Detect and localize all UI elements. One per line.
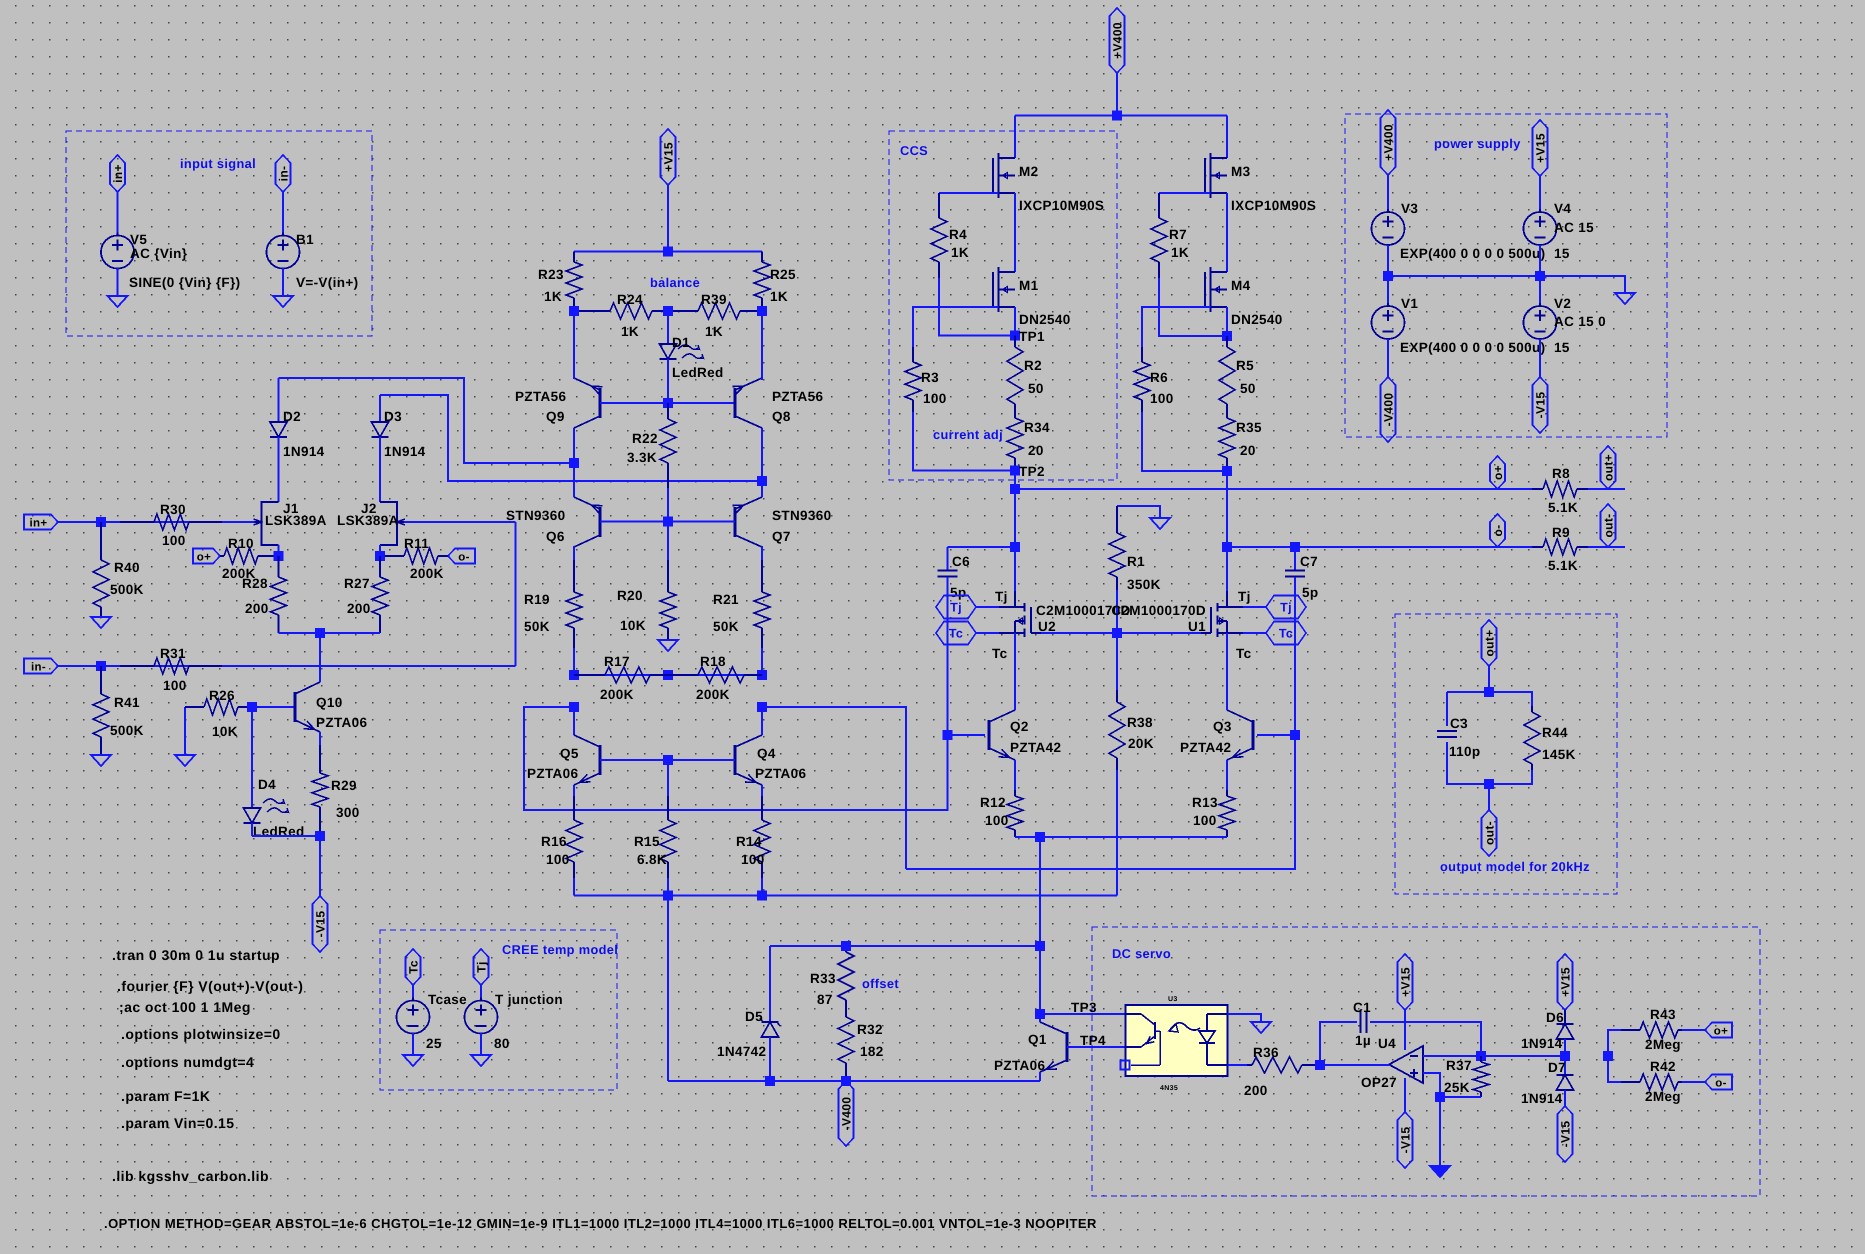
flag -V400 ps (1381, 377, 1396, 442)
ground B1 (273, 268, 293, 307)
ground opamp (1430, 1166, 1450, 1177)
svg-text:5p: 5p (1302, 585, 1318, 600)
resistor R23 (538, 252, 582, 312)
flag -V15 Q10 (313, 896, 328, 952)
svg-text:1K: 1K (1171, 245, 1189, 260)
svg-text:10K: 10K (620, 618, 646, 633)
resistor R15 (634, 760, 676, 896)
wire J1 gate (222, 521, 252, 523)
svg-text:-V15: -V15 (314, 911, 328, 938)
svg-text:STN9360: STN9360 (506, 508, 565, 523)
svg-text:R5: R5 (1236, 358, 1254, 373)
junction R35b (1222, 466, 1232, 476)
resistor R32 (838, 1014, 884, 1081)
svg-text:R38: R38 (1127, 715, 1153, 730)
comment box: CCS (889, 131, 1117, 480)
wire M2 drain (1014, 116, 1016, 159)
svg-text:100: 100 (985, 813, 1009, 828)
svg-text:R16: R16 (541, 834, 567, 849)
svg-text:4N35: 4N35 (1160, 1085, 1178, 1092)
transistor Q7 STN9360 (733, 497, 832, 547)
wire opamp plus (1423, 1073, 1440, 1097)
svg-text:Tc: Tc (949, 627, 963, 641)
diode D3 (372, 395, 426, 502)
svg-text:out-: out- (1483, 821, 1497, 845)
voltage source V2 (1524, 276, 1606, 355)
svg-text:-V15: -V15 (1534, 392, 1548, 419)
directive .fourier (117, 978, 303, 994)
svg-text:20: 20 (1028, 443, 1044, 458)
svg-text:1K: 1K (544, 289, 562, 304)
wire Q5 loop (524, 707, 948, 810)
wire opamp vm (0, 0, 1, 1)
svg-text:C6: C6 (952, 554, 970, 569)
svg-text:200: 200 (347, 601, 371, 616)
svg-text:D1: D1 (672, 335, 690, 350)
transistor Q2 PZTA42 (989, 710, 1061, 760)
junction r17r (663, 670, 673, 680)
resistor R2 (1007, 336, 1044, 413)
svg-text:+V400: +V400 (1382, 124, 1396, 161)
svg-text:R40: R40 (114, 560, 140, 575)
svg-text:U2: U2 (1038, 619, 1056, 634)
svg-text:output model for 20kHz: output model for 20kHz (1440, 859, 1590, 874)
svg-text:D3: D3 (384, 409, 402, 424)
resistor R39 (668, 292, 762, 339)
junction M4s (1222, 331, 1232, 341)
flag +V400 ps (1381, 110, 1396, 175)
mosfet M4 (1205, 267, 1283, 327)
junction Q2 base (943, 730, 953, 740)
wire v2 bot (1539, 339, 1541, 377)
junction r17l (569, 670, 579, 680)
wire o- rail (1227, 546, 1532, 548)
wire D3 top loop (380, 395, 762, 481)
wire r43 branch (1608, 1030, 1621, 1056)
svg-text:100: 100 (546, 852, 570, 867)
junction TP1 (1010, 329, 1045, 344)
diode D2 (270, 378, 325, 502)
svg-text:TP2: TP2 (1019, 464, 1045, 479)
wire gnd drop (1439, 1097, 1441, 1166)
junction R26/D4 (247, 702, 257, 712)
svg-text:D4: D4 (258, 777, 276, 792)
wire opto out (1228, 1064, 1248, 1066)
junction R33 top (841, 941, 851, 951)
svg-text:15: 15 (1554, 340, 1570, 355)
svg-text:R11: R11 (404, 536, 429, 551)
directive .OPTION (104, 1216, 1097, 1231)
flag -V400 offset (839, 1081, 854, 1146)
svg-text:LSK389A: LSK389A (337, 513, 399, 528)
svg-text:200K: 200K (696, 687, 730, 702)
svg-text:+V15: +V15 (662, 142, 676, 172)
svg-text:Q8: Q8 (772, 409, 791, 424)
junction R42R43 (1603, 1051, 1613, 1061)
svg-text:AC {Vin}: AC {Vin} (130, 246, 188, 261)
resistor R36 (1228, 1045, 1321, 1098)
comment box: output model (1395, 614, 1617, 894)
junction base mid (663, 755, 673, 765)
svg-text:+V15: +V15 (1534, 133, 1548, 163)
resistor R35 (1219, 412, 1262, 471)
opamp U4 OP27 (1361, 1036, 1423, 1090)
mosfet M1 (993, 267, 1071, 327)
junction opamp out (1315, 1060, 1325, 1070)
svg-text:D2: D2 (283, 409, 301, 424)
svg-text:Q5: Q5 (560, 746, 579, 761)
svg-text:offset: offset (862, 976, 899, 991)
svg-text:100: 100 (162, 533, 186, 548)
wire Q10 base (252, 706, 295, 708)
svg-text:DN2540: DN2540 (1231, 312, 1283, 327)
svg-text:Tc: Tc (407, 960, 421, 974)
junction U2 top (1010, 542, 1020, 552)
svg-text:R27: R27 (344, 576, 370, 591)
junction C7 node (1222, 542, 1232, 552)
resistor R4 (931, 193, 969, 278)
resistor R29 (312, 745, 360, 836)
resistor R25 (754, 252, 796, 312)
junction diode node (1560, 1051, 1570, 1061)
svg-text:Q2: Q2 (1010, 719, 1029, 734)
wire tj (480, 985, 482, 1001)
wire Q6 coll (573, 463, 575, 497)
wire R38 bot (1116, 770, 1118, 896)
wire Q10 emitter (319, 732, 321, 745)
resistor R18 (668, 654, 762, 702)
wire M3 gate (1159, 192, 1211, 194)
flag in+ (source) (110, 155, 125, 236)
svg-text:PZTA06: PZTA06 (527, 766, 579, 781)
svg-text:Tj: Tj (950, 601, 962, 615)
wire J1 source (278, 545, 280, 556)
svg-text:6.8K: 6.8K (637, 852, 667, 867)
svg-text:1N914: 1N914 (384, 444, 426, 459)
ground ps (1615, 293, 1635, 304)
wire v3 bot (1387, 245, 1389, 276)
wire v4 top (1539, 176, 1541, 212)
flag o- (448, 549, 475, 564)
diode D4 LED (244, 707, 305, 839)
svg-text:V4: V4 (1554, 201, 1571, 216)
wire M3 drain (1226, 116, 1228, 159)
svg-text:R3: R3 (921, 370, 939, 385)
wire Q9 collector (573, 428, 575, 463)
resistor R42 (1621, 1059, 1682, 1104)
ground Tcase (403, 1033, 423, 1066)
resistor R24 (574, 292, 668, 339)
junction R32 bot (841, 1076, 851, 1086)
svg-text:R21: R21 (713, 592, 739, 607)
wire M4 gate (1142, 307, 1211, 347)
junction TP2 (1010, 464, 1045, 479)
svg-text:500K: 500K (110, 582, 144, 597)
svg-text:TP3: TP3 (1071, 1000, 1097, 1015)
junction D5 bot (765, 1076, 775, 1086)
wire offset drop (667, 896, 669, 1082)
wire v1 bot (1387, 339, 1389, 377)
svg-text:.OPTION METHOD=GEAR ABSTOL=1e-: .OPTION METHOD=GEAR ABSTOL=1e-6 CHGTOL=1… (104, 1216, 1097, 1231)
wire TP3 (1040, 1000, 1125, 1015)
svg-text:R43: R43 (1650, 1007, 1676, 1022)
svg-text:PZTA06: PZTA06 (994, 1058, 1046, 1073)
wire U1 drain blue (1226, 547, 1228, 592)
svg-text:5.1K: 5.1K (1548, 558, 1578, 573)
capacitor C6 (938, 547, 971, 735)
sic mosfet U1 (1111, 591, 1243, 637)
svg-text:20: 20 (1240, 443, 1256, 458)
svg-text:M2: M2 (1019, 164, 1038, 179)
flag +V15 top (661, 129, 676, 185)
svg-text:100: 100 (923, 391, 947, 406)
wire U2 gate (1041, 632, 1117, 634)
svg-text:R25: R25 (770, 267, 796, 282)
wire offset rail bot (668, 1080, 1040, 1082)
svg-text:R17: R17 (604, 654, 630, 669)
transistor Q8 PZTA56 (733, 378, 824, 428)
svg-text:input signal: input signal (180, 156, 256, 171)
svg-text:Tj: Tj (1238, 589, 1251, 604)
wire opto gnd (1228, 1014, 1262, 1022)
junction ps1 (1383, 271, 1393, 281)
junction in+ (96, 517, 106, 527)
wire +V15 down (667, 185, 669, 252)
svg-text:o+: o+ (1714, 1026, 1728, 1038)
svg-text:110p: 110p (1449, 744, 1480, 759)
flag in+ (24, 515, 58, 530)
svg-text:1N914: 1N914 (1521, 1036, 1563, 1051)
wire M2 gate (939, 192, 999, 194)
flag -V15 opamp (1398, 1078, 1413, 1168)
junction om b (1484, 779, 1494, 789)
transistor Q9 PZTA56 (515, 378, 603, 428)
svg-text:AC 15: AC 15 (1554, 220, 1594, 235)
svg-text:R34: R34 (1024, 420, 1050, 435)
svg-text:1N4742: 1N4742 (717, 1044, 766, 1059)
svg-text:R36: R36 (1253, 1045, 1279, 1060)
svg-text:R4: R4 (949, 227, 967, 242)
svg-text:1K: 1K (705, 324, 723, 339)
svg-text:PZTA56: PZTA56 (772, 389, 824, 404)
comment box: power supply (1345, 114, 1667, 437)
svg-text:Q4: Q4 (757, 746, 776, 761)
resistor R33 (810, 946, 854, 1014)
resistor R10 (220, 536, 279, 581)
svg-text:C3: C3 (1450, 716, 1468, 731)
voltage source V4 (1524, 201, 1595, 261)
svg-text:o-: o- (1491, 524, 1505, 536)
svg-text:CCS: CCS (900, 143, 928, 158)
svg-text:power supply: power supply (1434, 136, 1521, 151)
flag out+ model (1482, 620, 1497, 666)
junction ps2 (1535, 271, 1545, 281)
svg-text:PZTA42: PZTA42 (1010, 740, 1061, 755)
resistor R21 (713, 546, 770, 675)
wire R35 down (1226, 471, 1228, 547)
ground R40 (91, 617, 111, 628)
svg-text:100: 100 (1150, 391, 1174, 406)
svg-text:R9: R9 (1552, 525, 1570, 540)
ground opto (1251, 1022, 1271, 1033)
junction Q8 coll (757, 476, 767, 486)
svg-text:o-: o- (458, 552, 470, 564)
svg-text:Tj: Tj (1280, 601, 1292, 615)
wire R25 to Q8 (761, 311, 763, 378)
directive .options plotwinsize (121, 1026, 281, 1042)
svg-text:PZTA06: PZTA06 (755, 766, 807, 781)
junction Q3 base (1290, 730, 1300, 740)
flag Tj source (474, 949, 489, 985)
directive .tran (112, 947, 280, 963)
svg-text:Q6: Q6 (546, 529, 565, 544)
svg-text:145K: 145K (1542, 747, 1576, 762)
wire M2M1 (1014, 193, 1016, 272)
svg-text:Tc: Tc (1236, 646, 1252, 661)
resistor R9 (1532, 525, 1625, 573)
svg-text:Q3: Q3 (1213, 719, 1232, 734)
wire q5 emitter (573, 785, 575, 796)
resistor R28 (242, 556, 287, 633)
resistor R5 (1219, 336, 1256, 412)
wire Q2 emit (1014, 760, 1016, 790)
svg-text:1K: 1K (621, 324, 639, 339)
wire Q1 emit (1039, 1072, 1041, 1081)
wire R28/R27 bottoms (279, 632, 381, 634)
flag out- model (1482, 810, 1497, 856)
voltage source V5 (101, 232, 240, 290)
resistor R27 (344, 556, 388, 633)
svg-text:V5: V5 (130, 232, 147, 247)
ground R20 (658, 640, 678, 651)
wire U2 src down (1014, 633, 1016, 709)
flag Tj U2 (936, 589, 1008, 619)
transistor Q4 PZTA06 (735, 735, 807, 785)
wire Q9 base rail (600, 402, 735, 404)
svg-text:R39: R39 (701, 292, 727, 307)
directive .param Vin (121, 1115, 235, 1131)
svg-text:LSK389A: LSK389A (265, 513, 327, 528)
resistor R38b none (0, 0, 1, 1)
svg-text:20K: 20K (1128, 736, 1154, 751)
junction bot1 (663, 891, 673, 901)
svg-text:100: 100 (741, 852, 765, 867)
comment text: current adj (933, 427, 1003, 442)
svg-text:R14: R14 (736, 834, 762, 849)
svg-text:CREE temp model: CREE temp model (502, 942, 618, 957)
svg-text:80: 80 (494, 1036, 510, 1051)
capacitor C1 (1320, 1000, 1481, 1065)
mosfet M3 (1205, 153, 1316, 213)
svg-text:.param Vin=0.15: .param Vin=0.15 (121, 1115, 235, 1131)
flag Tc source (406, 949, 421, 985)
wire om rect (1447, 692, 1532, 784)
junction bot2 (757, 891, 767, 901)
svg-text:out+: out+ (1483, 629, 1497, 656)
svg-text:R32: R32 (857, 1022, 883, 1037)
sic mosfet U2 (999, 591, 1131, 637)
junction q4col (757, 702, 767, 712)
svg-text:V3: V3 (1401, 201, 1418, 216)
wire U2 drain blue (1014, 547, 1016, 592)
svg-text:balance: balance (650, 275, 700, 290)
flag out- (1601, 504, 1616, 547)
optocoupler U3 4N35 (1121, 996, 1228, 1092)
svg-text:+V400: +V400 (1111, 22, 1125, 59)
wire r42 branch (1608, 1056, 1621, 1082)
wire U1 gate (1117, 632, 1201, 634)
comment box: CREE temp model (380, 930, 618, 1090)
svg-text:D5: D5 (745, 1009, 763, 1024)
svg-text:OP27: OP27 (1361, 1075, 1397, 1090)
wire R12R13 rail (1015, 836, 1227, 838)
wire v3 top (1387, 175, 1389, 212)
svg-text:D6: D6 (1546, 1010, 1564, 1025)
junction Q5 loop (569, 702, 579, 712)
junction om t (1484, 687, 1494, 697)
junction servo tap (1035, 832, 1045, 842)
svg-text:R19: R19 (524, 592, 550, 607)
svg-text:1µ: 1µ (1355, 1033, 1371, 1048)
svg-text:Tj: Tj (475, 961, 489, 972)
junction Q9 coll (569, 458, 579, 468)
svg-text:182: 182 (860, 1044, 884, 1059)
junction in- (96, 661, 106, 671)
svg-text:R7: R7 (1169, 227, 1187, 242)
svg-text:87: 87 (817, 992, 833, 1007)
voltage source Tjunction (465, 992, 564, 1051)
svg-text:50: 50 (1028, 381, 1044, 396)
svg-text:EXP(400 0 0 0 0 500u): EXP(400 0 0 0 0 500u) (1400, 246, 1545, 261)
ground R41 (91, 755, 111, 766)
svg-text:o-: o- (1715, 1078, 1727, 1090)
wire +V400 (1116, 73, 1118, 116)
svg-text:M3: M3 (1231, 164, 1251, 179)
resistor R13 (1192, 790, 1235, 837)
svg-text:R20: R20 (617, 588, 643, 603)
resistor R22 (627, 403, 676, 522)
svg-text:in+: in+ (111, 164, 125, 183)
resistor R26 (185, 688, 252, 755)
svg-text:Tcase: Tcase (428, 992, 467, 1007)
wire Q8 emitter up (761, 378, 763, 380)
svg-text:U4: U4 (1378, 1036, 1396, 1051)
wire Q8 collector (761, 428, 763, 481)
svg-text:-V400: -V400 (840, 1097, 854, 1131)
svg-text:100: 100 (163, 678, 187, 693)
svg-text:R22: R22 (632, 431, 658, 446)
diode D1 LED (660, 311, 724, 403)
wire V400 rail (1015, 115, 1227, 117)
svg-text:5p: 5p (950, 585, 966, 600)
wire Q6/Q7 base rail (600, 521, 735, 523)
svg-text:R6: R6 (1150, 370, 1168, 385)
svg-text:1N914: 1N914 (1521, 1091, 1563, 1106)
svg-text:200K: 200K (600, 687, 634, 702)
junction J2 src (375, 551, 385, 561)
diode D7 (1521, 1056, 1574, 1106)
resistor R14 (736, 796, 770, 896)
svg-text:IXCP10M90S: IXCP10M90S (1019, 198, 1104, 213)
transistor Q1 PZTA06 (994, 1022, 1067, 1073)
svg-text:200: 200 (245, 601, 269, 616)
directive .options numdgt (121, 1054, 254, 1070)
svg-text:out-: out- (1602, 513, 1616, 537)
svg-text:AC 15 0: AC 15 0 (1554, 314, 1606, 329)
resistor R43 (1621, 1007, 1682, 1052)
svg-text:R1: R1 (1127, 554, 1145, 569)
wire q5col (573, 707, 575, 735)
